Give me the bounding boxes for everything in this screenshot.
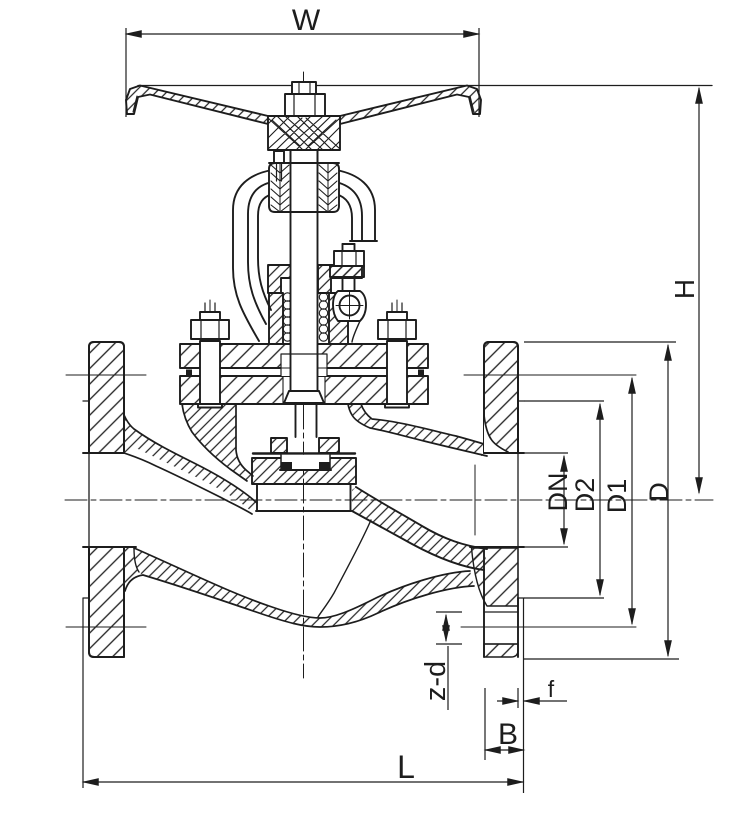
stem [290, 150, 292, 392]
hub wedge right [472, 548, 519, 606]
bolt bonnet left B1 [191, 300, 229, 408]
svg-text:f: f [548, 676, 555, 702]
stem channel white [291, 150, 317, 393]
svg-text:D1: D1 [602, 479, 632, 514]
gland plate right [318, 265, 362, 293]
body outlet lower wall [318, 487, 487, 617]
wire centerline right flange local [474, 465, 476, 535]
body bottom shell band [125, 548, 474, 627]
svg-text:L: L [397, 749, 415, 785]
dimension DN [524, 453, 568, 547]
dimension D2 [524, 401, 604, 598]
yoke arm right [336, 170, 377, 241]
dimension B [485, 688, 524, 760]
node right flange bolt centerlines [464, 374, 636, 376]
disc stem collar [284, 391, 324, 437]
dimension H [698, 88, 700, 493]
bonnet neck bore pocket [281, 354, 327, 403]
body outlet upper wall [348, 404, 487, 456]
dimension L [83, 598, 524, 793]
bolt hole right flange [484, 612, 518, 644]
dimension D1 [631, 378, 633, 624]
handwheel right section [340, 86, 481, 125]
handwheel top surface [138, 85, 712, 87]
node left flange bolt centerlines [66, 374, 146, 376]
svg-text:B: B [498, 718, 518, 751]
stuffing box walls [269, 293, 348, 344]
flange right [470, 342, 524, 657]
stud on housing [274, 151, 284, 163]
body neck left wedge [182, 404, 253, 483]
stem top nut [285, 82, 325, 116]
wire centerline vertical stem axis [303, 72, 305, 678]
handwheel hub [268, 116, 340, 150]
herringbone hatch left block [271, 163, 289, 212]
handwheel left section [126, 86, 268, 125]
valve disc [271, 438, 339, 453]
stem through housing [290, 150, 292, 212]
gland plate left [268, 265, 294, 293]
svg-text:DN: DN [543, 473, 573, 512]
svg-text:H: H [669, 279, 700, 299]
dimension D [524, 342, 679, 659]
gland bolt eye type [330, 244, 366, 342]
dimension f [497, 688, 567, 708]
body top flange [180, 376, 428, 404]
packing rings left [283, 293, 291, 341]
flange hub bore fillet right [484, 415, 508, 452]
seat ring [252, 454, 356, 485]
disc nose and seal rings [281, 455, 330, 470]
herringbone hatch right block [319, 163, 337, 212]
hub wedge left [124, 548, 139, 594]
svg-text:z-d: z-d [420, 661, 452, 701]
body inlet upper wall [124, 415, 257, 514]
dimension W [126, 28, 479, 117]
body bridge below seat [256, 484, 351, 511]
bonnet flange [180, 344, 428, 404]
yoke stem nut housing [269, 150, 339, 212]
svg-text:W: W [292, 4, 321, 37]
bolt bonnet right B2 [378, 300, 416, 408]
raised face right [518, 401, 524, 598]
wire centerline horizontal pipe axis [65, 499, 713, 501]
gasket [186, 375, 424, 377]
svg-text:D: D [644, 482, 674, 502]
packing rings right [319, 293, 327, 341]
svg-text:D2: D2 [570, 478, 600, 513]
yoke arm left [233, 170, 272, 341]
flange left [83, 342, 136, 657]
dimension z-d [436, 612, 462, 710]
wire sump to outlet partition [318, 520, 371, 617]
raised face left [83, 401, 89, 598]
